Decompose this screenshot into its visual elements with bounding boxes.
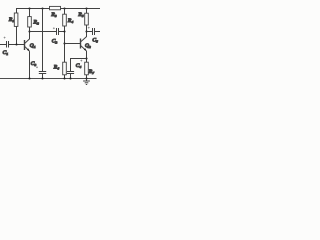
node Q2 collector junction dot (85, 30, 87, 32)
node junction dot top of C3 branch (41, 7, 43, 9)
label C5 (92, 38, 98, 44)
wire collector Q1 to C2 (30, 31, 57, 33)
label R7 (88, 69, 95, 75)
resistor R1 (bias, stage 1) (14, 13, 18, 26)
svg-text:C2: C2 (52, 38, 58, 44)
wire R1 bottom to base node (16, 26, 18, 44)
label Q2 (85, 43, 91, 49)
label C1 (3, 50, 9, 56)
capacitor C3 (supply decoupling) (39, 72, 46, 79)
node C2 to divider junction dot (63, 30, 65, 32)
wire Q2 emitter down to R7 (86, 51, 88, 62)
resistor R6 (lower bias divider, stage 2) (63, 62, 67, 78)
label R1 (8, 17, 15, 23)
node junction dot top of R4 (63, 7, 65, 9)
svg-text:R2: R2 (32, 20, 39, 26)
svg-text:R7: R7 (88, 69, 95, 75)
label C2 (52, 38, 58, 44)
node base of Q1 junction dot (15, 43, 17, 45)
node Q2 base junction dot (63, 42, 65, 44)
label R4 (67, 18, 74, 24)
node dot R6 at rail (63, 77, 65, 79)
wire bottom ground rail (0, 78, 97, 80)
svg-text:C5: C5 (92, 38, 98, 44)
label R6 (53, 64, 60, 70)
svg-text:R6: R6 (53, 64, 60, 70)
wire base of Q2 (65, 43, 81, 45)
svg-text:R1: R1 (8, 17, 15, 23)
resistor R4 (upper bias divider, stage 2) (63, 9, 67, 63)
wire collector Q2 to C5 (87, 31, 93, 33)
node dot C3 at rail (41, 77, 43, 79)
label + polarity C1 (4, 37, 6, 39)
node dot C4 at rail (69, 77, 71, 79)
label + polarity C3 (36, 66, 38, 68)
resistor R7 (emitter, stage 2) (85, 62, 89, 78)
node Q2 emitter junction dot (85, 57, 87, 59)
svg-text:C3: C3 (31, 61, 37, 67)
label R2 (32, 20, 39, 26)
resistor R5 (collector, stage 2) (85, 9, 89, 32)
label + polarity C2 (53, 27, 55, 29)
capacitor C5 (output coupling) (93, 28, 101, 35)
svg-text:Q1: Q1 (30, 43, 36, 49)
label C3 (31, 61, 37, 67)
transistor Q2 (81, 32, 87, 52)
node dot R7/ground at rail (85, 77, 87, 79)
wire decoupling branch from rail down to C3 (42, 9, 44, 72)
wire Q1 emitter down to ground rail (29, 51, 31, 78)
label + polarity C5 (88, 27, 90, 29)
transistor Q1 (25, 32, 30, 52)
label R5 (77, 12, 84, 18)
svg-text:R4: R4 (67, 18, 74, 24)
wire top rail right segment (61, 8, 101, 10)
capacitor C2 (interstage coupling) (57, 28, 65, 35)
svg-text:C1: C1 (3, 50, 9, 56)
label R3 (50, 12, 57, 18)
wire emitter node to C4 (71, 59, 87, 72)
node junction dot top of R2 (28, 7, 30, 9)
svg-text:R3: R3 (50, 12, 57, 18)
ground (83, 79, 90, 85)
node dot emitter Q1 at rail (28, 77, 30, 79)
label C4 (76, 63, 82, 69)
label Q1 (30, 43, 36, 49)
node Q1 collector junction dot (28, 30, 30, 32)
svg-text:C4: C4 (76, 63, 82, 69)
node junction dot top of R5 (85, 7, 87, 9)
capacitor C4 (emitter bypass) (67, 72, 74, 79)
wire top rail left segment with corner over R1 (17, 9, 50, 14)
resistor R3 (horizontal, in supply rail) (50, 6, 61, 9)
resistor R2 (collector, stage 1) (28, 9, 32, 32)
svg-text:R5: R5 (77, 12, 84, 18)
label + polarity C4 (80, 60, 82, 62)
svg-text:Q2: Q2 (85, 43, 91, 49)
capacitor C1 (input coupling) (0, 41, 24, 48)
